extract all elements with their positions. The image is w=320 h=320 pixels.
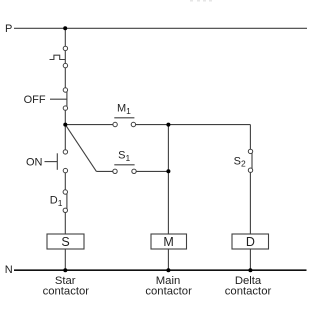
svg-text:contactor: contactor	[145, 286, 192, 298]
svg-text:ON: ON	[26, 157, 43, 169]
svg-text:N: N	[5, 264, 13, 276]
svg-text:P: P	[5, 23, 12, 35]
svg-text:D: D	[246, 235, 255, 249]
svg-text:OFF: OFF	[24, 94, 46, 106]
svg-text:M: M	[163, 235, 173, 249]
svg-text:S: S	[61, 235, 69, 249]
svg-text:contactor: contactor	[225, 286, 272, 298]
svg-text:contactor: contactor	[43, 286, 90, 298]
